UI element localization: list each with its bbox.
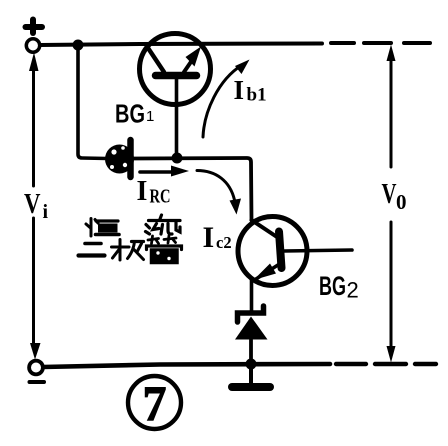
dimension Vi arrow line [29, 53, 41, 360]
transistor BG2 base bar [279, 232, 282, 269]
minus polarity mark [30, 380, 45, 384]
svg-text:i: i [43, 201, 49, 223]
label char heng (Chinese: constant) [86, 219, 119, 237]
svg-text:c2: c2 [216, 233, 232, 252]
wire diode branch down [78, 45, 107, 159]
terminal + (input positive) [26, 39, 39, 52]
transistor BG2 base lead (output) [284, 250, 352, 251]
svg-text:7: 7 [143, 375, 167, 431]
svg-text:b1: b1 [247, 85, 267, 106]
svg-text:BG: BG [319, 271, 346, 301]
current arrow Ib1 (curved) [203, 60, 250, 138]
transistor BG1 emitter lead with arrow [184, 47, 201, 73]
dimension Vo arrow line [387, 45, 396, 363]
wire middle rail to corner [134, 158, 252, 220]
plus polarity mark [26, 20, 43, 34]
current arrow Ic2 (curved) [197, 171, 241, 215]
label Ib1 [234, 75, 267, 106]
svg-text:V: V [382, 179, 397, 210]
wire bottom rail [43, 364, 330, 367]
svg-text:RC: RC [150, 186, 171, 208]
transistor BG1 lead down to node B [175, 79, 179, 156]
label char liu (Chinese: current/flow) [146, 215, 181, 234]
ground [232, 364, 270, 387]
label Vo [382, 179, 407, 214]
label BG2 [319, 271, 359, 303]
wire BG2 emitter down to zener [250, 279, 254, 312]
node C (junction zener / bottom rail / ground) [246, 359, 257, 370]
label Ic2 [203, 221, 232, 254]
wire top rail dashed continuation [331, 41, 430, 45]
wire zener to bottom rail [249, 340, 253, 363]
node B (junction BG1 base / middle rail) [172, 153, 183, 164]
svg-text:0: 0 [396, 190, 407, 214]
label Vi [24, 189, 49, 223]
diode D1 constant-current (blob body) [105, 145, 134, 174]
transistor BG1 base bar [156, 72, 197, 80]
node A (junction top rail / diode branch) [73, 40, 84, 51]
terminal - (input negative) [29, 361, 43, 375]
label char er (Chinese: two) [79, 244, 105, 256]
diode D1 cathode bar [127, 140, 134, 177]
label char ji (Chinese: pole) [112, 240, 144, 261]
svg-text:I: I [234, 75, 245, 105]
zener diode cathode bar [238, 306, 264, 322]
svg-text:1: 1 [146, 108, 154, 125]
svg-text:I: I [137, 176, 148, 207]
transistor BG2 circle [238, 217, 307, 286]
transistor BG2 emitter lead with arrow [254, 264, 280, 281]
transistor BG1 collector lead [147, 47, 164, 73]
zener diode triangle [235, 317, 268, 340]
wire top rail [40, 44, 322, 46]
label char guan (Chinese: tube) [147, 236, 182, 264]
svg-text:2: 2 [347, 278, 359, 303]
transistor BG1 circle [140, 34, 211, 105]
svg-text:I: I [203, 221, 215, 254]
svg-text:V: V [24, 189, 41, 220]
current arrow IRc [140, 166, 189, 177]
transistor BG2 collector lead (from node wire) [252, 220, 278, 237]
svg-text:BG: BG [115, 99, 145, 129]
wire bottom rail dashed continuation [336, 362, 436, 366]
label figure number 7 circled [128, 375, 181, 431]
label IRc [137, 176, 171, 208]
label BG1 [115, 99, 154, 129]
